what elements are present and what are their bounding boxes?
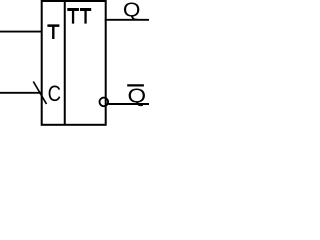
- dynamic input stroke on C: [33, 82, 46, 105]
- pin label T: [47, 24, 59, 39]
- section divider: [64, 0, 66, 125]
- pin label Q: [124, 3, 139, 21]
- pin label C: [49, 86, 61, 102]
- wire T input: [0, 31, 42, 33]
- wire Q-bar output: [108, 103, 149, 105]
- wire Q output: [105, 19, 149, 21]
- function label TT: [67, 8, 91, 24]
- inversion bubble on Q-bar output: [100, 98, 109, 107]
- wire C input: [0, 92, 42, 94]
- pin label Q-bar: [127, 85, 145, 106]
- flip-flop body U1: [42, 1, 106, 125]
